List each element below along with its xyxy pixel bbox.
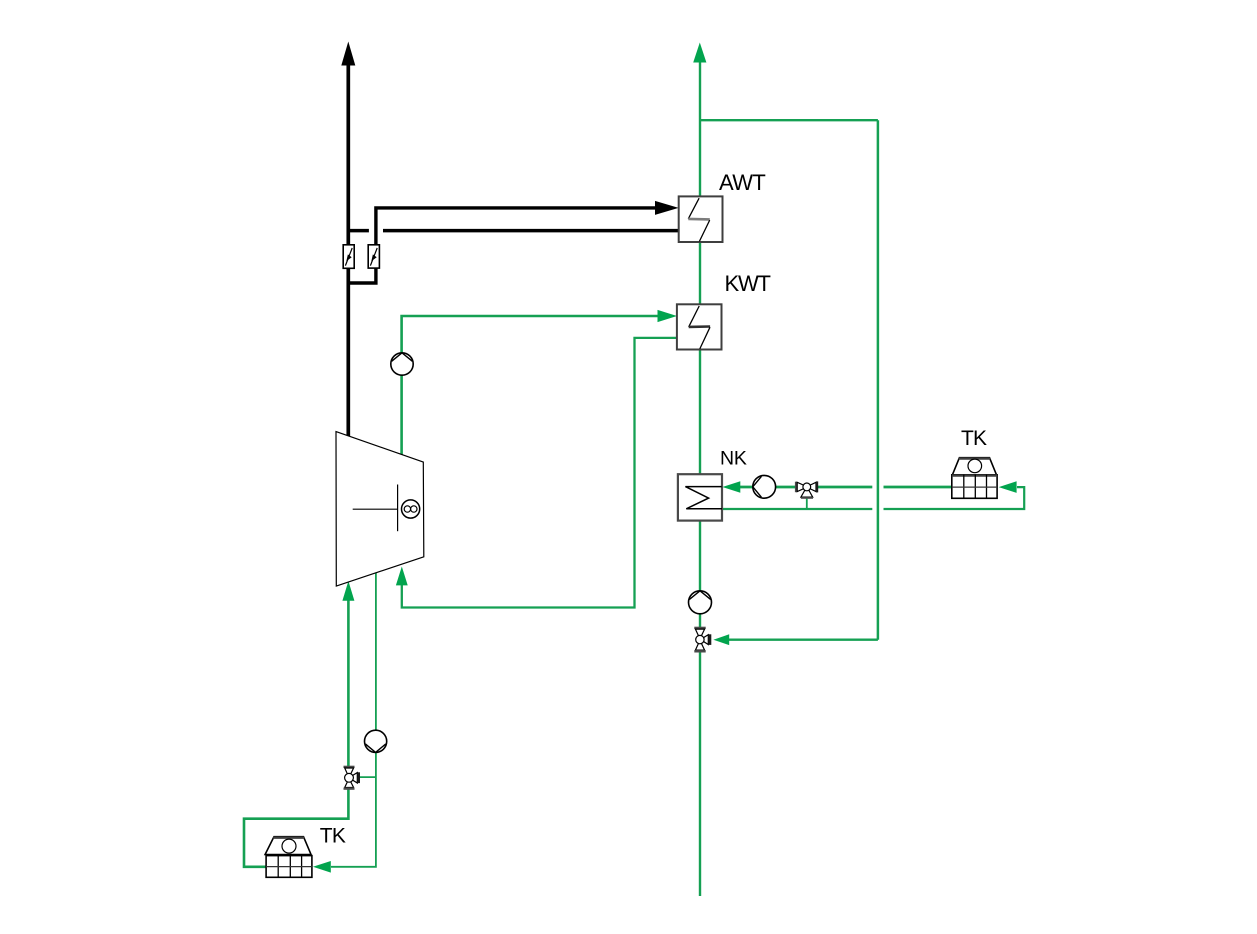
heat exchanger NK [678, 474, 722, 520]
arrow: into turbine bottom (x=401.8, points up) [396, 567, 408, 586]
valve V3 (3-way valve on NK supply line) [795, 481, 818, 498]
arrow: into turbine bottom left (points up) [342, 581, 354, 601]
arrow: condensate riser outlet (top green arrow) [693, 43, 706, 63]
valve V2 (3-way valve on turbine cooling supply) [344, 766, 361, 790]
arrow: into mixing valve V4 (points left) [713, 634, 729, 645]
cooling tower TK (bottom left) [265, 837, 312, 878]
wire: steam branch to AWT upper port (black) [348, 208, 656, 283]
wire: main steam line (black, x=348.3) [346, 64, 350, 437]
wire: cooling water supply to turbine (thick green x=348.3) [244, 598, 348, 867]
wire: KWT return to turbine (green loop left) [402, 338, 677, 608]
heat exchanger AWT [679, 196, 723, 242]
arrow: into NK right port (points left) [722, 481, 740, 493]
svg-text:TK: TK [320, 825, 346, 848]
wire: AWT lower black line (y=230.6) with crossover gap [348, 229, 678, 233]
wire: main condensate riser (green, x=700) [699, 60, 701, 896]
svg-text:KWT: KWT [725, 271, 771, 296]
turbine [336, 432, 424, 586]
svg-text:TK: TK [961, 427, 987, 450]
label TK (bottom left) [320, 825, 346, 848]
wire: NK return to cooling tower TK2 (lower, y=509) with crossover gap [722, 487, 1024, 509]
arrow: into cooling tower TK2 right side (points left) [999, 481, 1017, 493]
pump P2 (turbine drain to TK) [365, 730, 387, 752]
wire: bypass line right vertical (x=878) [877, 120, 880, 640]
arrow: steam exhaust (top black arrow) [341, 42, 355, 66]
label KWT [725, 271, 771, 296]
label TK (right) [961, 427, 987, 450]
wire: valve V2 stub to drain line [360, 776, 376, 778]
label NK [720, 448, 747, 470]
valve: inline damper on main steam line [343, 245, 354, 268]
wire: cooling tower TK2 supply to NK (upper, y=487) with crossover gap [740, 486, 952, 489]
arrow: into cooling tower TK right side (points left) [313, 861, 331, 873]
heat exchanger KWT [677, 304, 722, 349]
cooling tower TK2 (right) [952, 458, 997, 499]
arrow: into KWT left upper port [658, 310, 678, 322]
pump P1 (turbine to KWT) [391, 353, 413, 375]
wire: bypass line top horizontal (700,117.5 to 878) [700, 119, 878, 121]
svg-text:NK: NK [720, 448, 747, 470]
valve: inline damper on AWT branch line [368, 245, 379, 268]
label AWT [719, 170, 765, 195]
arrow: into AWT upper left port (black, points right) [655, 201, 679, 215]
wire: turbine outlet to KWT (green via pump P1) [402, 316, 660, 455]
svg-text:AWT: AWT [719, 170, 765, 195]
wire: bypass line bottom horizontal into mixing valve [729, 639, 878, 641]
pump P3 (TK2 to NK) [753, 475, 776, 498]
pump P4 (condensate, below NK) [689, 591, 712, 614]
wire: turbine drain to cooling tower TK (thin green x=375.9) [331, 573, 376, 867]
wire: valve V3 stub to return line [806, 499, 808, 509]
valve V4 (3-way mixing valve on condensate riser) [694, 627, 711, 653]
